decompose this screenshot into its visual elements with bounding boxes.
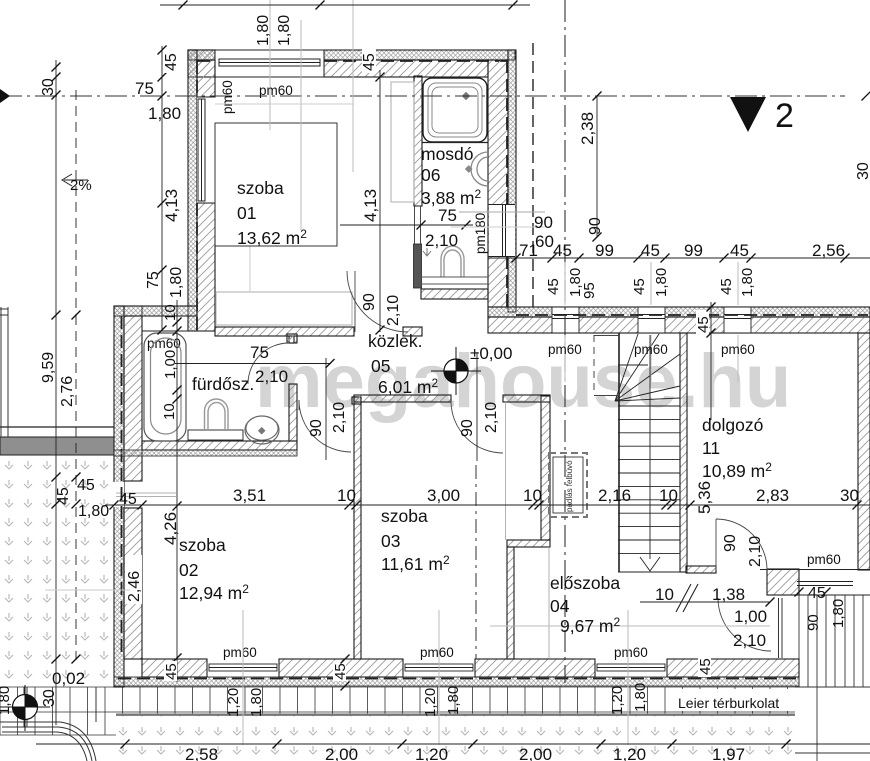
bath shelf [188,430,243,440]
mosdo washbasin [465,152,488,186]
svg-text:pm60: pm60 [548,342,582,357]
door szoba03 [451,401,503,453]
mosdo left wall [414,76,422,206]
bathroom right wall + door tab [289,384,297,441]
stair landing edge [593,335,595,395]
top ticks + 1,80 labels [270,0,353,230]
window in left wall [197,97,215,203]
svg-text:10,89 m2: 10,89 m2 [702,460,772,481]
svg-text:02: 02 [179,560,198,580]
mosdo wardrobe [391,82,414,202]
left vertical dim line 1 [56,60,76,725]
svg-text:90: 90 [587,217,604,235]
svg-text:1,20: 1,20 [609,686,626,715]
svg-text:1,80: 1,80 [78,503,109,520]
svg-text:1,80: 1,80 [445,686,462,715]
svg-text:dolgozó: dolgozó [702,415,763,435]
bathtub [144,333,186,441]
svg-text:1,80: 1,80 [739,268,756,297]
svg-text:9,67 m2: 9,67 m2 [560,615,621,636]
svg-text:2%: 2% [70,177,92,194]
szoba03 door dims [476,352,478,461]
2,38 dim [596,96,598,237]
svg-text:45: 45 [361,53,378,71]
window centre witness lines [565,262,738,382]
svg-text:4,13: 4,13 [361,189,380,222]
svg-text:2,76: 2,76 [59,376,76,407]
bathroom bottom wall [142,441,297,450]
svg-text:13,62 m2: 13,62 m2 [237,227,307,248]
shower niche bottom line [422,142,488,144]
svg-text:2,10: 2,10 [747,536,764,567]
door szoba02 [299,400,351,452]
svg-text:45: 45 [695,316,712,333]
svg-text:6,01 m2: 6,01 m2 [378,376,439,397]
svg-text:2,83: 2,83 [756,486,789,505]
svg-text:45: 45 [808,585,826,602]
svg-text:1,20: 1,20 [422,688,439,717]
building bottom wall [142,659,207,677]
svg-text:2,16: 2,16 [598,486,631,505]
svg-text:90: 90 [361,293,378,311]
szoba02 door dims [325,358,327,460]
vertical axis line [564,0,566,683]
svg-text:95: 95 [581,282,598,299]
svg-text:1,80: 1,80 [248,688,265,717]
szoba01 stamp rect [215,123,337,246]
right terrace steps vertical lines [795,595,870,761]
svg-text:2,10: 2,10 [425,231,458,250]
svg-text:padlás felbúvó: padlás felbúvó [565,460,574,512]
terrain hatch left [0,455,114,687]
svg-text:45: 45 [119,491,137,508]
right bottom window [760,570,870,596]
svg-text:45: 45 [332,663,349,680]
svg-text:mosdó: mosdó [421,144,474,164]
svg-text:3,00: 3,00 [427,486,460,505]
svg-text:előszoba: előszoba [550,573,620,593]
wc door leaf (dark) [414,244,422,288]
svg-text:3,88 m2: 3,88 m2 [421,187,482,208]
bottom wall 45 labels [164,661,177,681]
dolgozo door dims [710,302,712,420]
svg-text:1,38: 1,38 [712,585,745,604]
svg-text:0,02: 0,02 [52,669,85,688]
svg-text:60: 60 [535,232,554,251]
window in bottom wall [207,659,279,677]
svg-text:1,20: 1,20 [613,745,646,761]
dolgozo door corner block [767,569,799,595]
svg-text:1,20: 1,20 [225,688,242,717]
svg-text:45: 45 [697,658,714,675]
bottom-left curved step structure [0,687,96,761]
svg-text:45: 45 [163,663,180,680]
svg-text:2: 2 [775,97,794,135]
horizontal axis line [0,95,845,97]
svg-text:fürdősz.: fürdősz. [192,374,254,394]
padlas felbuvo (attic hatch) [549,453,587,517]
svg-text:pm60: pm60 [220,80,235,114]
svg-text:szoba: szoba [179,535,226,555]
svg-text:4,26: 4,26 [161,512,180,545]
svg-text:szoba: szoba [381,506,428,526]
svg-text:Leier térburkolat: Leier térburkolat [678,695,779,711]
2 percent slope arrow [62,174,88,186]
svg-text:2,10: 2,10 [385,295,402,326]
stairs [615,333,680,572]
svg-text:1,80: 1,80 [148,104,181,123]
svg-text:90: 90 [459,419,476,437]
svg-text:1,00: 1,00 [162,350,179,379]
window in right wing top wall [552,307,579,333]
svg-text:10: 10 [655,585,674,604]
eloszoba axis line [475,465,477,659]
dashed envelope line top/left [197,61,507,330]
svg-text:90: 90 [805,614,822,631]
svg-text:99: 99 [595,241,614,260]
svg-text:45: 45 [631,278,648,295]
svg-text:2,10: 2,10 [255,367,288,386]
window in bottom wall [403,659,475,677]
right wing top wall [488,307,870,317]
svg-text:75: 75 [250,343,269,362]
svg-text:pm60: pm60 [614,645,648,660]
svg-text:2,46: 2,46 [126,571,143,602]
window in bottom wall [595,659,667,677]
svg-text:pm60: pm60 [634,342,668,357]
divider lower [507,547,514,659]
svg-text:1,80: 1,80 [632,683,649,712]
stairwell right wall [680,333,687,572]
szoba01 left dim chain [161,46,163,330]
svg-text:5,36: 5,36 [695,481,714,514]
svg-text:75: 75 [135,79,154,98]
svg-text:4,13: 4,13 [162,189,181,222]
svg-text:2,38: 2,38 [578,112,597,145]
svg-text:3,51: 3,51 [233,486,266,505]
paving grid strip [0,687,795,735]
svg-text:04: 04 [550,596,570,616]
szoba03 / eloszoba divider (upper) [541,396,550,540]
svg-text:90: 90 [722,534,739,552]
svg-text:45: 45 [163,53,180,71]
top window (1,80) [188,50,515,77]
svg-text:1,80: 1,80 [653,268,670,297]
left wall szoba01 [188,50,197,331]
window in right wing top wall [724,307,751,333]
Leier terburkolat label [668,689,795,711]
svg-text:1,80: 1,80 [255,15,272,46]
elevation marker 0.00 [431,347,481,395]
svg-text:11,61 m2: 11,61 m2 [381,553,450,574]
bath washbasin [245,416,279,444]
svg-text:12,94 m2: 12,94 m2 [179,582,249,603]
terrain hatch bottom [116,715,795,761]
svg-text:1,80: 1,80 [168,267,185,298]
svg-text:99: 99 [684,241,703,260]
roof overhang dashed [532,43,534,307]
svg-text:75: 75 [438,206,457,225]
svg-text:2,58: 2,58 [185,745,218,761]
svg-text:2,10: 2,10 [483,402,500,433]
svg-text:pm60: pm60 [721,342,755,357]
bottom dim chain [36,743,870,745]
door bathroom [248,343,289,384]
svg-text:1,80: 1,80 [0,686,13,715]
window in right wing top wall [638,307,665,333]
svg-text:10: 10 [523,486,542,505]
svg-text:2,56: 2,56 [812,241,845,260]
svg-text:75: 75 [145,271,162,289]
szoba01 bottom wall [215,327,354,336]
window in mosdo east wall [488,205,515,257]
svg-text:1,80: 1,80 [830,599,847,628]
svg-text:30: 30 [41,689,58,707]
svg-text:1,00: 1,00 [734,607,767,626]
svg-text:9,59: 9,59 [40,352,57,383]
dolgozo right outer wall [858,333,870,570]
svg-text:45: 45 [55,487,72,505]
left boundary lines [0,307,8,437]
door szoba01 [347,271,408,332]
svg-text:1,80: 1,80 [276,15,293,46]
svg-text:2,00: 2,00 [519,745,552,761]
svg-text:01: 01 [237,203,256,223]
svg-text:10: 10 [161,403,178,420]
section marker triangle 2 [730,97,766,132]
svg-text:±0,00: ±0,00 [470,344,512,363]
entrance door arc [718,598,771,651]
wc bottom wall [421,289,488,299]
svg-text:pm60: pm60 [420,645,454,660]
elevation marker bottom-left [0,685,50,731]
svg-text:45: 45 [553,241,572,260]
right wall of mosdo block [488,60,508,307]
bottom window witness lines [243,610,628,745]
svg-text:45: 45 [641,241,660,260]
main horizontal dim chain [105,504,870,506]
svg-text:szoba: szoba [237,178,284,198]
right wing top dim chain [488,257,870,259]
svg-text:05: 05 [371,356,390,376]
svg-text:1,97: 1,97 [712,745,745,761]
grey terrace band [0,437,114,455]
svg-text:2,10: 2,10 [733,631,766,650]
svg-text:10: 10 [659,486,678,505]
svg-text:45: 45 [730,241,749,260]
4,13 dim right of szoba01 [379,70,381,332]
svg-text:06: 06 [421,165,440,185]
top wall of szoba01 [188,50,215,77]
svg-text:90: 90 [308,419,325,437]
svg-text:90: 90 [534,213,553,232]
svg-text:pm60: pm60 [807,552,841,567]
svg-text:2,00: 2,00 [325,745,358,761]
shower tray [423,78,487,142]
svg-text:10: 10 [162,304,179,321]
svg-text:11: 11 [702,438,720,458]
svg-text:45: 45 [718,278,735,295]
divider jog [507,540,550,547]
szoba03 top wall (kozlek south) [354,395,451,402]
svg-text:45: 45 [545,278,562,295]
svg-text:30: 30 [840,486,859,505]
svg-text:2,10: 2,10 [331,402,348,433]
svg-text:pm60: pm60 [259,83,293,98]
svg-text:pm60: pm60 [223,645,257,660]
eloszoba dims [640,601,770,603]
bathroom / szoba02 left outer wall [114,306,124,687]
entry sidelight lines [779,598,783,658]
joint gap in left wall [116,493,176,497]
szoba01 furniture [216,292,352,325]
svg-text:1,20: 1,20 [415,745,448,761]
svg-text:közlek.: közlek. [368,331,422,351]
svg-text:03: 03 [381,531,400,551]
bath toilet [205,399,229,429]
tub dim chain [176,300,178,682]
bathroom block top wall [114,306,197,316]
svg-text:30: 30 [855,162,870,180]
wc toilet [421,246,488,284]
svg-text:pm180: pm180 [473,213,488,254]
svg-text:30: 30 [40,78,57,96]
svg-text:45: 45 [77,477,95,494]
svg-text:10: 10 [337,486,356,505]
door dolgozo [716,519,767,570]
wc 75 dim [340,224,473,226]
szoba02 / szoba03 divider [354,397,361,659]
